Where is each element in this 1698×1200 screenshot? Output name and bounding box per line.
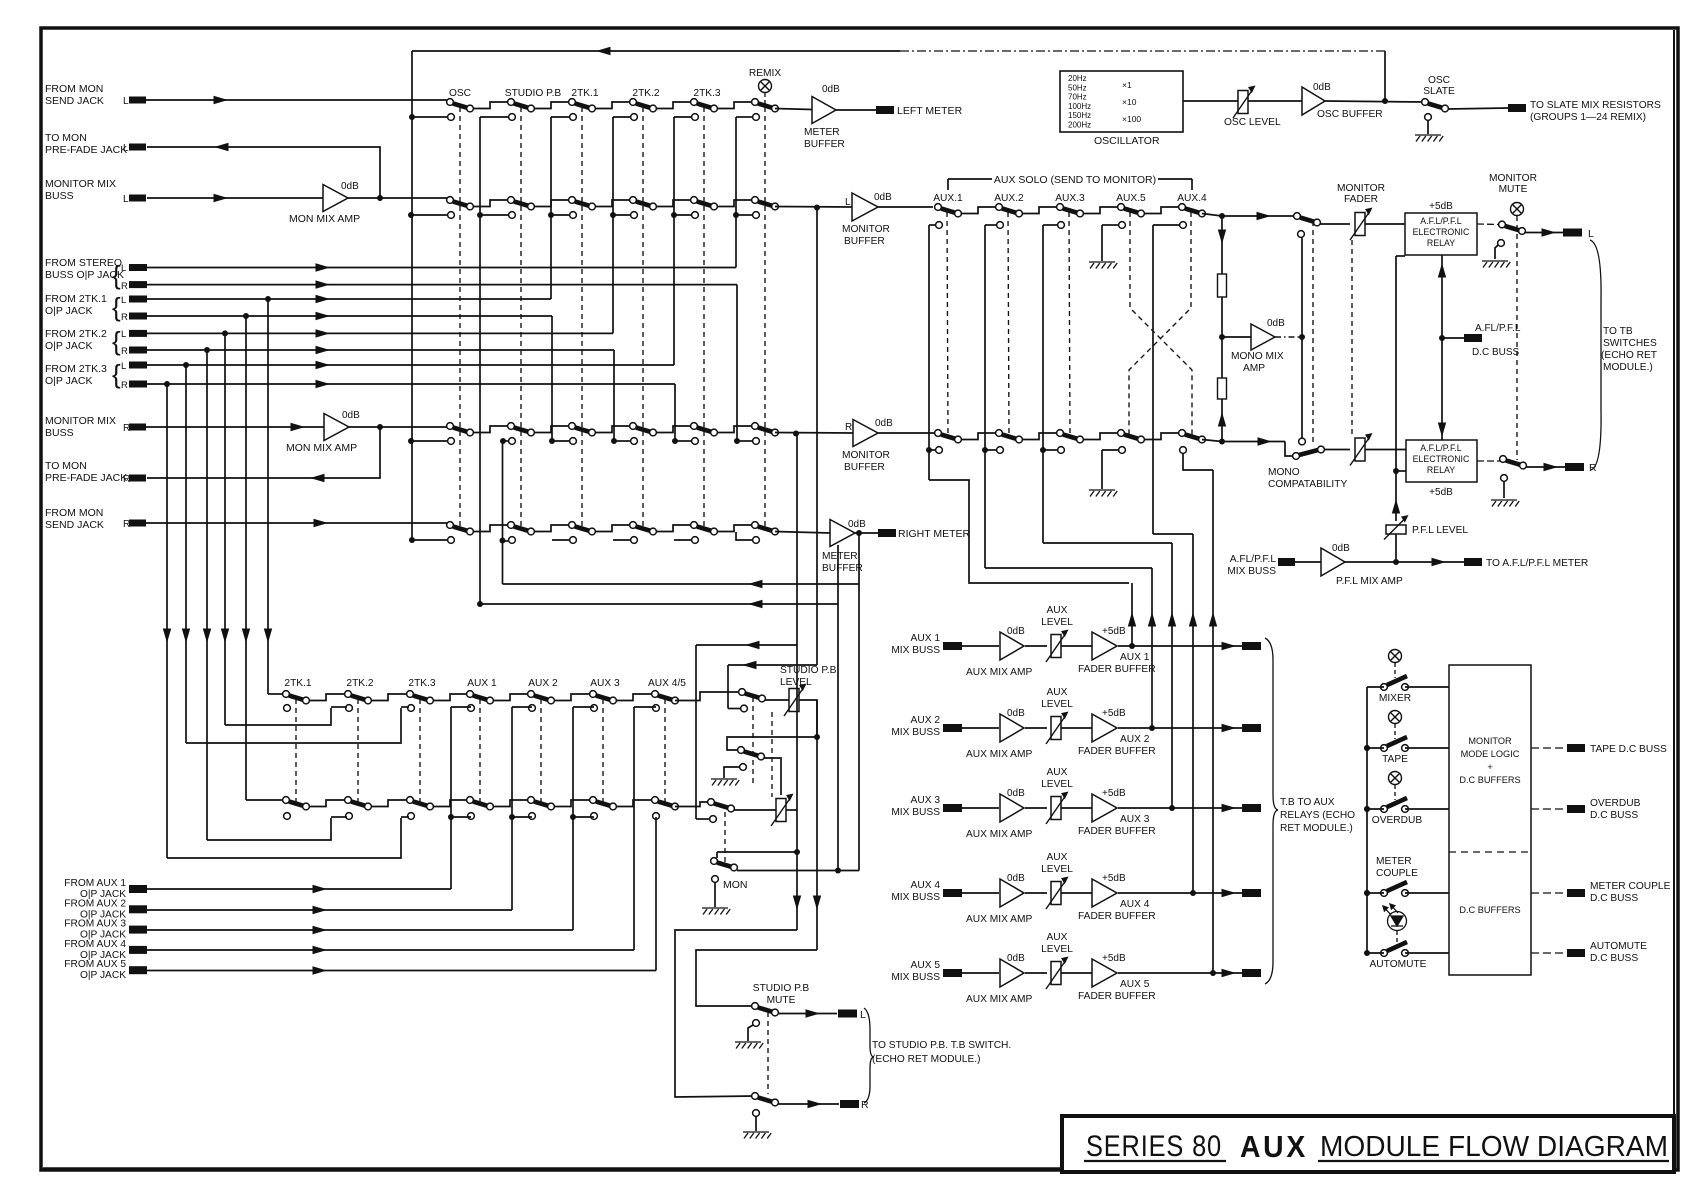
svg-text:MONO: MONO: [1268, 467, 1300, 478]
wire studio feed y584: [503, 583, 860, 585]
svg-text:MODE LOGIC: MODE LOGIC: [1461, 749, 1520, 759]
svg-text:ELECTRONIC: ELECTRONIC: [1413, 454, 1470, 464]
ground MON: [702, 908, 730, 915]
arrow to TO MON PRE-FADE L: [214, 143, 229, 151]
svg-text:D.C BUFFERS: D.C BUFFERS: [1459, 905, 1520, 915]
svg-text:MIX BUSS: MIX BUSS: [891, 645, 940, 656]
svg-text:AUX: AUX: [1047, 605, 1068, 616]
wire amp to AUX LEVEL 1: [1025, 645, 1047, 647]
wire FROM MON SEND L to switch row 1: [146, 99, 447, 101]
vertical STUDIO P.B select buss x=480: [479, 117, 481, 604]
jack AUTOMUTE D.C BUSS: [1567, 949, 1585, 957]
svg-text:FADER BUFFER: FADER BUFFER: [1078, 826, 1156, 837]
switch matrix bottom AUX 2: [528, 797, 535, 804]
terminal below matrix: [591, 813, 598, 820]
node aux 1 output: [1129, 643, 1135, 649]
jack AUX 1 MIX BUSS: [943, 642, 962, 650]
arrow on monitor R line: [1258, 437, 1273, 445]
gang link dashed pot1-pot2: [771, 712, 773, 797]
svg-text:MONITOR MIX: MONITOR MIX: [45, 415, 116, 427]
wire to top below contact: [573, 706, 594, 708]
svg-text:MON: MON: [723, 879, 748, 891]
wire PFL pot to mix line: [1395, 534, 1397, 562]
svg-text:LEVEL: LEVEL: [1041, 864, 1073, 875]
jack monitor L output: [1563, 229, 1582, 237]
svg-text:2TK.1: 2TK.1: [284, 678, 312, 689]
wire FROM STEREO R feed: [147, 284, 737, 286]
arrow: [313, 906, 328, 914]
svg-text:{: {: [112, 292, 121, 322]
wire chain: [534, 426, 569, 433]
terminal below matrix: [284, 813, 291, 820]
switch aux solo L AUX.3: [1057, 204, 1064, 211]
switch row4 meter R STUDIO P.B: [508, 522, 515, 529]
svg-text:D.C BUSS: D.C BUSS: [1590, 810, 1638, 821]
box MONITOR MODE LOGIC: [1449, 665, 1531, 975]
svg-text:P.F.L LEVEL: P.F.L LEVEL: [1412, 525, 1468, 536]
wire fader R to relay R: [1365, 449, 1406, 451]
svg-text:MON MIX AMP: MON MIX AMP: [289, 213, 360, 225]
wire FROM 2TK.3 R feed: [147, 383, 675, 385]
svg-text:AUX: AUX: [1047, 687, 1068, 698]
arrow left y665: [742, 661, 757, 669]
terminal below aux solo L AUX.5: [1119, 222, 1126, 229]
jack FROM AUX 1: [129, 885, 147, 893]
switch matrix top 2TK.2: [345, 691, 352, 698]
svg-text:AUTOMUTE: AUTOMUTE: [1590, 941, 1647, 952]
wire amp to AUX LEVEL 5: [1025, 972, 1047, 974]
svg-text:MIX BUSS: MIX BUSS: [891, 972, 940, 983]
svg-text:BUFFER: BUFFER: [804, 139, 845, 150]
jack FROM AUX 5: [129, 966, 147, 974]
arrow to R jack: [1544, 463, 1559, 471]
gang link dashed STUDIO P.B column: [520, 107, 522, 530]
vertical monitor R to studio C riser: [695, 645, 697, 819]
terminal below row1 meter L 2TK.1: [570, 114, 577, 121]
wire chain: [473, 102, 508, 109]
arrow up aux4 riser: [1189, 612, 1197, 627]
svg-text:AUX 5: AUX 5: [911, 960, 941, 971]
wire chain aux solo R: [961, 433, 996, 440]
vertical aux4 send riser x=1153: [1152, 225, 1154, 534]
switch matrix bottom 2TK.1: [283, 797, 290, 804]
wire row1 REMIX out to METER BUFFER L: [775, 109, 812, 110]
switch row2 monitor L 2TK.2: [630, 197, 637, 204]
svg-text:OVERDUB: OVERDUB: [1590, 798, 1641, 809]
svg-text:FROM AUX 1: FROM AUX 1: [64, 878, 126, 889]
wire logic box to OVERDUB jack: [1531, 808, 1567, 810]
terminal below row4 meter R STUDIO P.B: [509, 537, 516, 544]
gang link dashed aux column: [947, 212, 948, 437]
switch matrix top AUX 2: [528, 691, 535, 698]
arrow to aux output jack: [1222, 724, 1237, 732]
wire aux1 riser to fader line: [929, 480, 1129, 583]
jack FROM MON SEND JACK R: [129, 520, 146, 527]
switch matrix top AUX 1: [467, 691, 474, 698]
svg-text:MONITOR MIX: MONITOR MIX: [45, 178, 116, 190]
svg-text:AUX MIX AMP: AUX MIX AMP: [966, 667, 1032, 678]
svg-text:L: L: [123, 194, 129, 205]
svg-text:FROM 2TK.3: FROM 2TK.3: [45, 363, 107, 375]
wire to AUX MIX AMP 1: [962, 645, 999, 647]
node OSC BUFFER output: [1382, 98, 1388, 104]
node tap at x=268 on FROM 2TK.1 L feed: [265, 296, 271, 302]
svg-text:SWITCHES: SWITCHES: [1603, 338, 1657, 349]
svg-text:RET MODULE.): RET MODULE.): [1280, 823, 1353, 834]
arrow on FROM MON SEND R: [314, 519, 329, 527]
terminal below matrix: [284, 705, 291, 712]
svg-text:100Hz: 100Hz: [1068, 102, 1091, 111]
svg-text:MONITOR: MONITOR: [842, 224, 890, 235]
wire FROM 2TK.3 L feed: [147, 364, 674, 366]
node DC buss jack tap: [1439, 335, 1445, 341]
vertical monitor L tap drop x=817: [816, 208, 818, 666]
svg-text:FROM AUX 2: FROM AUX 2: [64, 898, 126, 909]
svg-text:AUX 4/5: AUX 4/5: [648, 678, 686, 689]
node aux 5 output: [1210, 970, 1216, 976]
wire mono out down to compat switch: [1301, 237, 1303, 438]
wire logic box to AUTOMUTE jack: [1531, 952, 1567, 954]
node MON MIX AMP L output: [377, 195, 383, 201]
switch MONO COMPATABILITY: [1299, 438, 1306, 445]
wire pot2 out to riser: [786, 809, 797, 811]
svg-text:SEND JACK: SEND JACK: [45, 519, 104, 531]
switch matrix bottom AUX 1: [467, 797, 474, 804]
svg-text:RELAY: RELAY: [1427, 465, 1455, 475]
wire row4 REMIX below feed: [736, 532, 752, 540]
svg-text:FADER: FADER: [1344, 194, 1378, 205]
svg-text:PRE-FADE JACK: PRE-FADE JACK: [45, 144, 127, 156]
svg-text:L: L: [121, 295, 126, 306]
wire MON below to ground: [714, 882, 716, 907]
svg-text:LEVEL: LEVEL: [1041, 699, 1073, 710]
wire OSC BUFFER node riser: [1384, 51, 1386, 101]
wire MONITOR MIX BUSS R to MON MIX AMP R: [146, 426, 324, 428]
svg-text:TAPE D.C BUSS: TAPE D.C BUSS: [1590, 744, 1667, 755]
arrow on FROM 2TK.3 L feed: [316, 361, 331, 369]
node logic buss: [1364, 950, 1370, 956]
op-amp AUX MIX AMP 1: [1000, 632, 1024, 660]
svg-text:FROM AUX 5: FROM AUX 5: [64, 959, 126, 970]
gang link dashed 2TK.3 column: [703, 107, 705, 530]
terminal below row1 meter L 2TK.2: [631, 114, 638, 121]
wire MONO MIX AMP out: [1275, 336, 1302, 338]
jack A.FL/P.FL DC BUSS: [1464, 334, 1482, 342]
svg-text:AUX 4: AUX 4: [911, 880, 941, 891]
terminal below matrix: [653, 705, 660, 712]
svg-text:AUX.3: AUX.3: [1055, 193, 1085, 204]
svg-text:+5dB: +5dB: [1429, 487, 1453, 498]
node PFL out: [1393, 559, 1399, 565]
svg-text:0dB: 0dB: [1007, 788, 1025, 799]
arrow up into mono resistor R: [1218, 412, 1226, 427]
wire row2 REMIX out to MONITOR BUFFER L: [775, 206, 852, 209]
switch row1 meter L 2TK.3: [691, 99, 698, 106]
switch AUTOMUTE: [1381, 950, 1388, 957]
wire aux2 riser to fader line: [985, 567, 1152, 569]
potentiometer AUX LEVEL 3: [1051, 797, 1061, 820]
terminal below matrix: [346, 705, 353, 712]
arrow left y604: [748, 600, 763, 608]
wire aux1 R below: [929, 449, 936, 451]
wire meter couple to box: [1367, 892, 1384, 894]
gang link dashed REMIX column: [764, 107, 766, 530]
wire studio feed y604: [480, 603, 838, 605]
wire to bottom below contact: [655, 816, 657, 818]
wire vertical feed x=268 down to bottom matrix: [267, 299, 269, 694]
gang link dashed 2TK.1 column: [581, 107, 583, 530]
arrow on FROM STEREO L feed: [316, 263, 331, 271]
switch matrix bottom AUX 3: [590, 797, 597, 804]
switch row1 meter L STUDIO P.B: [508, 99, 515, 106]
vertical OSC select buss x=412: [411, 118, 413, 538]
svg-text:FROM 2TK.2: FROM 2TK.2: [45, 328, 107, 340]
switch matrix top AUX 3: [590, 691, 597, 698]
node MON MIX AMP R output: [377, 424, 383, 430]
svg-text:REMIX: REMIX: [749, 68, 781, 79]
svg-text:AUX 4: AUX 4: [1120, 899, 1150, 910]
wire aux1 L below to riser: [929, 224, 935, 226]
terminal below mute L: [753, 1020, 760, 1027]
bracket TO TB SWITCHES: [1590, 240, 1601, 470]
terminal below aux solo R 3: [1058, 447, 1065, 454]
svg-text:STUDIO P.B: STUDIO P.B: [753, 983, 810, 994]
terminal below row1 meter L 2TK.3: [692, 114, 699, 121]
svg-text:0dB: 0dB: [1007, 873, 1025, 884]
wire automute to box: [1367, 952, 1384, 954]
arrow on monitor L line: [1257, 212, 1272, 220]
svg-text:2TK.2: 2TK.2: [632, 88, 660, 99]
vertical A.FL/P.FL DC buss: [1441, 255, 1443, 440]
svg-text:BUFFER: BUFFER: [844, 236, 885, 247]
svg-text:L: L: [121, 329, 126, 340]
wire chain: [717, 525, 752, 532]
wire row4 stub 2TK.2: [613, 539, 630, 541]
wire aux5 L below to ground: [1102, 224, 1118, 226]
wire matrix bottom chain to studio switch C: [675, 802, 708, 807]
terminal below aux solo R 5: [1180, 447, 1187, 454]
wire aux3 L below to riser: [1043, 224, 1057, 226]
svg-text:P.F.L MIX AMP: P.F.L MIX AMP: [1336, 576, 1403, 587]
potentiometer PFL LEVEL: [1386, 525, 1406, 534]
wire chain: [717, 102, 752, 109]
terminal below row4 meter R 2TK.1: [570, 537, 577, 544]
svg-text:AUX MIX AMP: AUX MIX AMP: [966, 914, 1032, 925]
op-amp MONITOR BUFFER L: [852, 193, 878, 221]
svg-text:(ECHO RET: (ECHO RET: [1601, 350, 1657, 361]
wire FROM 2TK.2 L feed: [147, 332, 613, 334]
wire fader buffer 2 to output jack: [1118, 727, 1242, 729]
vertical riser x=838: [837, 545, 839, 871]
gang link dashed monitor mute: [1516, 216, 1518, 460]
wire chain: [595, 426, 630, 433]
switch row3 monitor R 2TK.2: [630, 423, 637, 430]
terminal below aux solo L AUX.4: [1180, 222, 1187, 229]
svg-text:AUX 1: AUX 1: [1120, 652, 1150, 663]
arrow: [313, 885, 328, 893]
wire MON select tap y852: [717, 851, 797, 853]
potentiometer AUX LEVEL 4: [1051, 882, 1061, 905]
gang link dashed fader L-R: [1351, 240, 1353, 436]
terminal below aux solo L AUX.1: [936, 222, 943, 229]
terminal below matrix: [529, 705, 536, 712]
wire to bottom below contact: [451, 816, 471, 818]
op-amp AUX MIX AMP 4: [1000, 879, 1024, 907]
wire DC buss to jack: [1442, 337, 1464, 339]
potentiometer OSC LEVEL: [1238, 91, 1248, 114]
svg-text:O|P JACK: O|P JACK: [80, 970, 126, 981]
svg-text:×10: ×10: [1122, 97, 1137, 107]
wire pot to FADER BUFFER 1: [1061, 645, 1092, 647]
arrow: [313, 966, 328, 974]
gang link dashed studio A-B: [752, 697, 754, 787]
vertical STUDIO P.B select buss x=503: [502, 441, 504, 584]
terminal below aux solo R 4: [1119, 447, 1126, 454]
svg-text:MONITOR: MONITOR: [842, 450, 890, 461]
gang link dashed 2TK.2 column: [642, 107, 644, 530]
jack AUX 5 MIX BUSS: [943, 969, 962, 977]
wire aux2 L below to riser: [985, 224, 996, 226]
terminal below row4 meter R REMIX: [753, 537, 760, 544]
svg-text:LEFT METER: LEFT METER: [897, 105, 963, 117]
wire vertical feed x=225 down to bottom matrix: [224, 333, 226, 725]
node logic buss: [1364, 806, 1370, 812]
terminal below aux solo R 2: [997, 447, 1004, 454]
wire mute R below to ground: [755, 1116, 757, 1131]
svg-text:L: L: [123, 143, 129, 154]
bracket studio PB outputs: [864, 1008, 874, 1103]
svg-text:AUX.5: AUX.5: [1116, 193, 1146, 204]
svg-text:LEVEL: LEVEL: [1041, 617, 1073, 628]
svg-text:0dB: 0dB: [1007, 708, 1025, 719]
wire pot to FADER BUFFER 5: [1061, 972, 1092, 974]
svg-text:TO STUDIO P.B. T.B SWITCH.: TO STUDIO P.B. T.B SWITCH.: [872, 1040, 1011, 1051]
svg-text:2TK.3: 2TK.3: [693, 88, 721, 99]
node mono feed L: [1219, 213, 1225, 219]
svg-text:D.C BUSS: D.C BUSS: [1590, 953, 1638, 964]
jack aux 3 relay output: [1242, 804, 1261, 812]
wire fader L to relay: [1365, 223, 1405, 225]
arrow down into relay R: [1438, 423, 1446, 438]
switch row2 monitor L 2TK.3: [691, 197, 698, 204]
wire row1 2TK.1 below feed: [551, 116, 569, 118]
svg-text:AUX MIX AMP: AUX MIX AMP: [966, 994, 1032, 1005]
terminal below pre-fader L: [1298, 231, 1305, 238]
jack TO MON PRE-FADE JACK L: [129, 144, 146, 151]
wire MONITOR MIX BUSS L to MON MIX AMP: [147, 197, 323, 199]
jack aux 4 relay output: [1242, 889, 1261, 897]
arrow up aux2 riser: [1148, 612, 1156, 627]
node logic buss: [1364, 745, 1370, 751]
terminal below mute L: [1498, 240, 1505, 247]
wire overdub to box: [1367, 808, 1384, 810]
jack RIGHT METER: [878, 529, 896, 537]
jack TO MON PRE-FADE JACK R: [129, 475, 146, 482]
node tap at x=186 on FROM 2TK.3 L feed: [183, 362, 189, 368]
svg-text:MONITOR: MONITOR: [1489, 173, 1537, 184]
terminal below row2 monitor L OSC: [448, 212, 455, 219]
wire matrix bottom 2TK.3 below link: [401, 816, 409, 818]
svg-text:TAPE: TAPE: [1382, 754, 1408, 765]
switch aux solo R 1: [935, 430, 942, 437]
wire matrix top chain to studio switch A: [675, 692, 741, 701]
terminal below matrix: [529, 813, 536, 820]
svg-text:OVERDUB: OVERDUB: [1372, 815, 1423, 826]
svg-text:FROM MON: FROM MON: [45, 507, 103, 519]
wire vertical feed x=207 down to bottom matrix: [206, 350, 208, 840]
jack MONITOR MIX BUSS R: [129, 424, 146, 431]
terminal below row3 monitor R 2TK.2: [631, 438, 638, 445]
arrow down into mono resistor: [1218, 230, 1226, 245]
vertical 2TK.3 R buss: [674, 384, 676, 441]
jack aux 5 relay output: [1242, 969, 1261, 977]
jack MONITOR MIX BUSS L: [129, 195, 146, 202]
wire chain: [656, 525, 691, 532]
svg-text:LEVEL: LEVEL: [1041, 779, 1073, 790]
svg-text:A.F.L/P.F.L: A.F.L/P.F.L: [1420, 216, 1462, 226]
wire aux4 R below to ground: [1102, 449, 1119, 451]
svg-text:TO SLATE MIX RESISTORS: TO SLATE MIX RESISTORS: [1530, 100, 1661, 111]
wire TO MON PRE-FADE L from MON MIX AMP output: [147, 147, 380, 196]
svg-text:MUTE: MUTE: [767, 995, 796, 1006]
wire FROM 2TK.2 R feed: [147, 349, 614, 351]
svg-text:200Hz: 200Hz: [1068, 121, 1091, 130]
resistor mono R: [1218, 378, 1227, 399]
wire PFL MIX AMP out: [1345, 561, 1464, 563]
wire row3 below feeds: [411, 440, 447, 442]
wire chain: [534, 102, 569, 109]
svg-text:AUX 2: AUX 2: [1120, 734, 1150, 745]
svg-text:AUX 2: AUX 2: [911, 715, 941, 726]
op-amp AUX 1 FADER BUFFER: [1092, 632, 1117, 660]
svg-text:(GROUPS 1—24 REMIX): (GROUPS 1—24 REMIX): [1530, 112, 1646, 123]
arrow to L jack: [1542, 228, 1557, 236]
svg-text:{: {: [112, 326, 121, 356]
switch row2 monitor L 2TK.1: [569, 197, 576, 204]
wire fader buffer 5 to output jack: [1118, 972, 1242, 974]
svg-text:FROM AUX 4: FROM AUX 4: [64, 939, 126, 950]
svg-text:AUX SOLO (SEND TO MONITOR): AUX SOLO (SEND TO MONITOR): [994, 174, 1156, 186]
wire row4 stub 2TK.1: [552, 539, 569, 541]
switch MIXER: [1381, 684, 1388, 691]
arrow on FROM 2TK.2 R feed: [316, 346, 331, 354]
wire studio A out to pot1: [765, 699, 789, 701]
gang link dashed OSC column: [459, 107, 461, 530]
vertical pot1 drop x=817: [816, 700, 818, 950]
svg-text:SEND JACK: SEND JACK: [45, 95, 104, 107]
wire vertical feed x=246 down to bottom matrix: [245, 316, 247, 800]
switch monitor pre-fader L: [1294, 213, 1301, 220]
gang link dashed MON: [724, 812, 726, 862]
svg-text:METER: METER: [804, 127, 840, 138]
vertical 2TK.2 L buss: [612, 117, 614, 333]
arrow down on feed: [203, 629, 211, 644]
arrow down on feed: [163, 629, 171, 644]
vertical logic select buss: [1366, 687, 1368, 953]
terminal below matrix: [408, 813, 415, 820]
terminal below row3 monitor R REMIX: [753, 438, 760, 445]
terminal below aux solo L AUX.2: [997, 222, 1004, 229]
svg-text:FADER BUFFER: FADER BUFFER: [1078, 746, 1156, 757]
switch aux solo R 2: [996, 430, 1003, 437]
node aux 3 output: [1169, 805, 1175, 811]
arrow left on top feedback line: [596, 47, 611, 55]
terminal below row2 monitor L 2TK.2: [631, 212, 638, 219]
switch aux solo R 5: [1179, 430, 1186, 437]
svg-text:R: R: [121, 281, 128, 292]
arrow to PFL meter jack: [1432, 558, 1447, 566]
wire aux4 L below to riser: [1153, 224, 1179, 226]
